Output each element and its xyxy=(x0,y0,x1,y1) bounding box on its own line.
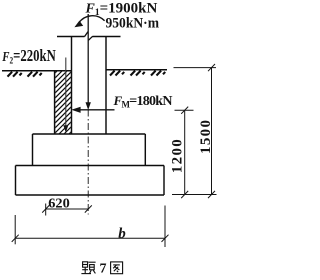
svg-text:F2=220kN: F2=220kN xyxy=(2,46,56,67)
svg-text:7: 7 xyxy=(100,262,107,277)
svg-text:1200: 1200 xyxy=(170,139,186,173)
svg-text:b: b xyxy=(118,226,126,242)
svg-text:1500: 1500 xyxy=(198,120,214,154)
svg-text:950kN·m: 950kN·m xyxy=(106,16,160,32)
svg-text:620: 620 xyxy=(48,197,70,212)
svg-text:FM=180kN: FM=180kN xyxy=(113,93,173,109)
